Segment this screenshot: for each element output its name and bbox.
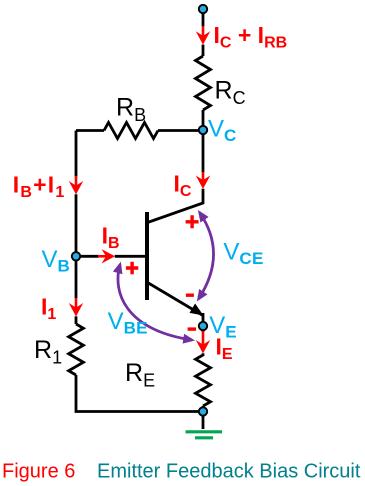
svg-text:IB+I1: IB+I1 bbox=[13, 172, 66, 202]
svg-text:Emitter Feedback Bias Circuit: Emitter Feedback Bias Circuit bbox=[97, 461, 361, 483]
svg-text:I1: I1 bbox=[41, 294, 56, 324]
svg-text:VCE: VCE bbox=[223, 238, 263, 268]
svg-text:IB: IB bbox=[102, 223, 120, 253]
svg-text:VB: VB bbox=[42, 246, 71, 276]
svg-text:VBE: VBE bbox=[108, 308, 148, 338]
svg-text:IC + IRB: IC + IRB bbox=[214, 22, 288, 52]
svg-text:IC: IC bbox=[174, 171, 192, 201]
svg-text:VE: VE bbox=[209, 312, 237, 342]
svg-text:VC: VC bbox=[208, 116, 237, 146]
svg-text:R1: R1 bbox=[34, 336, 62, 368]
svg-text:RB: RB bbox=[116, 94, 146, 126]
svg-text:RE: RE bbox=[125, 359, 155, 391]
svg-text:Figure 6: Figure 6 bbox=[2, 461, 75, 483]
svg-text:RC: RC bbox=[215, 77, 246, 109]
